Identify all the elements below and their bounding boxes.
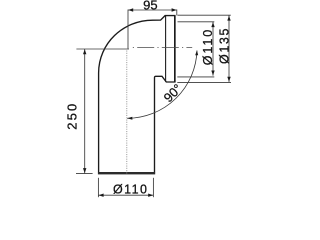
dim D110 top: up arrow <box>211 22 214 27</box>
dim D110 top: dimension line <box>212 22 214 76</box>
svg-text:250: 250 <box>64 104 79 130</box>
dim 250: bottom arrow <box>83 168 86 173</box>
svg-text:95: 95 <box>143 0 157 13</box>
dim D110 bottom: left arrow <box>99 194 104 197</box>
dim 250: bottom extension line <box>76 173 93 175</box>
dim 95: left extension line <box>127 10 129 49</box>
pipe bottom rim <box>98 172 155 174</box>
dim D135: down arrow <box>227 77 230 82</box>
dim D135: dimension line <box>228 16 230 82</box>
svg-text:Ø135: Ø135 <box>217 29 231 65</box>
dim D135: up arrow <box>227 16 230 21</box>
angle arc 90deg <box>127 51 197 119</box>
dim D110 bottom: right extension line <box>152 178 154 197</box>
svg-text:90°: 90° <box>161 81 185 105</box>
dim D110 top: upper extension line <box>178 21 215 23</box>
dim D110 top: lower extension line <box>177 76 214 78</box>
dim 250: dimension line <box>84 49 86 173</box>
dim 95: right extension line <box>176 10 178 16</box>
dim D110 top: down arrow <box>211 71 214 76</box>
dim 95: dimension line <box>128 9 177 11</box>
socket lip vertical line <box>165 16 167 82</box>
dim 250: top arrow <box>83 49 86 54</box>
horizontal pipe centerline dash-dot <box>133 47 192 49</box>
dim D110 bottom: left extension line <box>97 178 99 197</box>
dim 95: left arrow <box>128 8 133 11</box>
dim 250: top extension line <box>76 48 129 50</box>
dim D110 bottom: dimension line <box>98 194 153 196</box>
svg-text:Ø110: Ø110 <box>113 182 147 196</box>
angle arc: lower arrow (points left along tangent) <box>127 117 132 120</box>
vertical pipe axis dotted line <box>126 51 128 175</box>
dim D110 bottom: right arrow <box>148 194 153 197</box>
angle arc: upper arrow (points up along tangent) <box>195 50 198 55</box>
dim D135: lower extension line <box>177 81 231 83</box>
socket right edge (thicker) <box>174 16 176 82</box>
dim D135: upper extension line <box>178 14 231 16</box>
dim 95: right arrow <box>172 8 177 11</box>
elbow pipe outer contour <box>99 16 175 173</box>
